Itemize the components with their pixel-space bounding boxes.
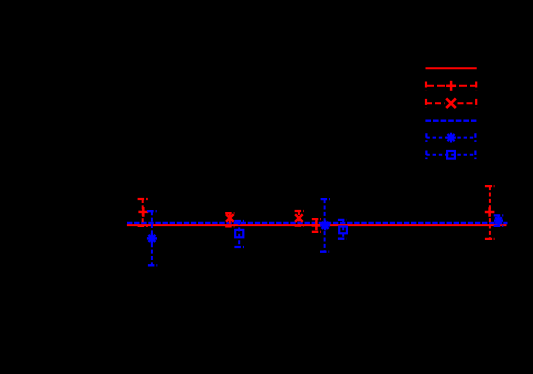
legend entry 2: red dashed errorbar sample with plus [426, 81, 476, 91]
legend entry 4: blue dashed line sample [425, 119, 476, 121]
red data point 3 errorbar [295, 211, 304, 226]
legend entry 1: red solid line sample [426, 67, 477, 69]
red data point 1 errorbar [138, 199, 148, 226]
blue data point 5 asterisk marker [494, 216, 503, 225]
blue data point 4 errorbar [338, 220, 347, 239]
red data point 5 plus marker [485, 207, 495, 217]
legend entry 6: blue dashed errorbar sample with square [426, 151, 475, 160]
blue data point 2 errorbar [234, 221, 244, 247]
blue data point 1 asterisk marker [147, 233, 157, 243]
blue dashed theory line [127, 222, 508, 224]
red data point 1 plus marker [138, 207, 148, 217]
red data point 5 errorbar [485, 186, 495, 239]
blue data point 3 asterisk marker [320, 220, 330, 230]
red data point 4 errorbar [312, 219, 321, 232]
legend entry 5: blue dashed errorbar sample with asterisk [426, 133, 475, 143]
red data point 3 cross marker [295, 214, 303, 222]
blue data point 1 errorbar [147, 211, 157, 265]
red data point 2 errorbar [225, 213, 234, 226]
legend entry 3: red dashed errorbar sample with cross [426, 98, 476, 108]
red solid theory line [127, 224, 507, 226]
blue data point 4 square marker [339, 227, 347, 234]
blue data point 2 square marker [235, 230, 243, 237]
red data point 2 cross marker [226, 214, 234, 222]
blue data point 3 errorbar [320, 199, 330, 252]
red data point 4 plus marker [312, 221, 322, 231]
blue data point 5 errorbar [494, 215, 504, 226]
